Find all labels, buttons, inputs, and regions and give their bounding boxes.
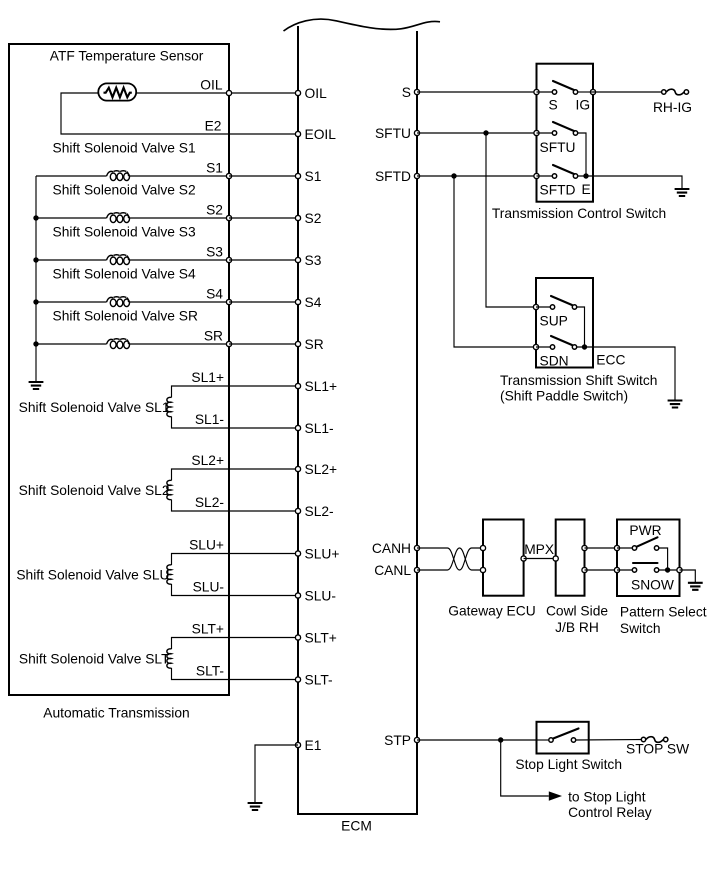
- wire SL1- to ECM: [172, 417, 299, 429]
- pin SR (ECM): [295, 341, 300, 346]
- wire PWR contact to common: [659, 548, 668, 570]
- svg-text:SR: SR: [204, 329, 223, 344]
- wire SUP row inside shift switch: [536, 306, 553, 308]
- svg-text:Shift Solenoid Valve SLU: Shift Solenoid Valve SLU: [16, 568, 169, 583]
- svg-text:S1: S1: [305, 169, 322, 184]
- svg-text:SL2-: SL2-: [305, 504, 334, 519]
- svg-text:CANL: CANL: [374, 563, 411, 578]
- switch contact right SDN: [572, 345, 576, 349]
- wire solenoid common ground bus: [35, 176, 37, 382]
- svg-text:Automatic Transmission: Automatic Transmission: [43, 706, 189, 721]
- wire E2 sensor loop: [61, 93, 298, 134]
- wire OIL box edge to ECM: [229, 92, 298, 94]
- svg-text:S2: S2: [305, 211, 322, 226]
- svg-text:SDN: SDN: [540, 353, 569, 368]
- wire SFTU ECM to control switch: [417, 132, 537, 134]
- wire SUP to SFTU junction: [486, 133, 536, 307]
- ground control switch E: [675, 189, 690, 196]
- arrow to stop light control relay: [549, 791, 562, 800]
- connector wave STOP SW: [646, 737, 663, 743]
- node PWR row at pattern switch: [614, 545, 619, 550]
- junction ECC common: [582, 344, 587, 349]
- svg-text:SL1-: SL1-: [195, 412, 224, 427]
- connector terminal STOP SW left: [641, 737, 645, 741]
- switch blade SUP: [551, 296, 572, 305]
- pin S3 (ECM): [295, 257, 300, 262]
- junction STP branch: [498, 737, 503, 742]
- node SFTU at control switch: [534, 130, 539, 135]
- wire SFTU row inside control switch: [537, 132, 555, 134]
- node CANH at gateway: [480, 545, 485, 550]
- switch blade stop light: [553, 729, 578, 739]
- junction pattern switch common: [665, 567, 670, 572]
- connector terminal STOP SW right: [664, 737, 668, 741]
- svg-text:Shift Solenoid Valve S3: Shift Solenoid Valve S3: [53, 225, 196, 240]
- node IG output at control switch: [590, 89, 595, 94]
- solenoid coil L-SL2: [167, 480, 172, 499]
- svg-text:SL1+: SL1+: [191, 370, 224, 385]
- wire SR left lead to common bus: [36, 343, 107, 345]
- svg-text:IG: IG: [576, 98, 591, 113]
- pin S2 (ECM): [295, 215, 300, 220]
- junction bus-S2: [33, 215, 38, 220]
- transmission shift switch box: [536, 278, 593, 368]
- node MPX at gateway: [521, 556, 526, 561]
- switch contact right S-IG: [573, 90, 577, 94]
- svg-text:E2: E2: [205, 119, 222, 134]
- solenoid coil L-SL1: [167, 397, 172, 416]
- svg-text:S2: S2: [206, 203, 223, 218]
- pin SL1- (ECM): [295, 425, 300, 430]
- wire S1 coil to box edge: [129, 175, 229, 177]
- svg-text:OIL: OIL: [200, 78, 223, 93]
- wire S4 coil to box edge: [129, 301, 229, 303]
- thermistor ATF temperature sensor body: [98, 83, 136, 100]
- wire SLT+ to ECM: [172, 638, 299, 650]
- node CANH-out at cowl J/B: [582, 545, 587, 550]
- wire S2 box edge to ECM: [229, 217, 298, 219]
- svg-text:SFTD: SFTD: [540, 183, 576, 198]
- pin S4 (ECM): [295, 299, 300, 304]
- wire S-IG row inside control switch: [537, 91, 555, 93]
- pin SLT- (ECM): [295, 677, 300, 682]
- svg-text:SLT-: SLT-: [196, 664, 224, 679]
- wire S1 left lead to common bus: [36, 175, 107, 177]
- node OIL at box edge: [226, 90, 231, 95]
- svg-text:S4: S4: [206, 287, 223, 302]
- wire S4 box edge to ECM: [229, 301, 298, 303]
- pin STP (ECM right): [414, 737, 419, 742]
- switch blade SNOW closed: [633, 562, 658, 564]
- switch contact right SUP: [572, 305, 576, 309]
- svg-text:SFTU: SFTU: [540, 140, 576, 155]
- svg-text:STOP SW: STOP SW: [626, 742, 689, 757]
- ground E1: [248, 803, 263, 810]
- svg-text:SL2+: SL2+: [305, 462, 338, 477]
- ECM top break wavy line: [284, 19, 441, 31]
- wire OIL sensor to box edge: [136, 92, 229, 94]
- junction bus-S3: [33, 257, 38, 262]
- svg-text:SLU-: SLU-: [305, 589, 336, 604]
- wire SL1+ to ECM: [172, 386, 299, 398]
- wire SLU+ to ECM: [172, 554, 299, 566]
- pin CANL (ECM right): [414, 567, 419, 572]
- wire S4 left lead to common bus: [36, 301, 107, 303]
- thermistor resistive element zigzag: [104, 88, 132, 98]
- node S1 at box edge: [226, 173, 231, 178]
- wire S3 box edge to ECM: [229, 259, 298, 261]
- svg-text:SNOW: SNOW: [631, 578, 674, 593]
- switch contact right SNOW: [654, 568, 658, 572]
- pattern select switch box: [617, 520, 680, 597]
- wire SDN row inside shift switch: [536, 346, 553, 348]
- node S at control switch: [534, 89, 539, 94]
- svg-text:Shift Solenoid Valve S1: Shift Solenoid Valve S1: [53, 141, 196, 156]
- pin SFTD (ECM right): [414, 173, 419, 178]
- switch blade SDN: [551, 336, 572, 345]
- svg-text:SLU-: SLU-: [193, 580, 224, 595]
- pin EOIL (ECM): [295, 131, 300, 136]
- node SDN at shift switch: [533, 344, 538, 349]
- node SNOW row at pattern switch: [614, 567, 619, 572]
- wire STP row inside stop light switch: [537, 739, 552, 741]
- wire SL2- to ECM: [172, 500, 299, 512]
- pin S1 (ECM): [295, 173, 300, 178]
- svg-text:(Shift Paddle Switch): (Shift Paddle Switch): [500, 389, 628, 404]
- node SFTD at control switch: [534, 173, 539, 178]
- svg-text:Cowl Side: Cowl Side: [546, 604, 608, 619]
- wire S3 left lead to common bus: [36, 259, 107, 261]
- connector terminal RH-IG left: [662, 90, 666, 94]
- solenoid coil L-S1: [110, 173, 116, 181]
- pin SLT+ (ECM): [295, 635, 300, 640]
- switch contact left stop light: [549, 738, 553, 742]
- twisted pair CANL strand: [448, 548, 484, 570]
- node S4 at box edge: [226, 299, 231, 304]
- connector terminal RH-IG right: [684, 90, 688, 94]
- svg-text:SL1-: SL1-: [305, 421, 334, 436]
- wire control switch to RH-IG: [593, 91, 664, 93]
- solenoid coil L-SLU: [167, 565, 172, 584]
- wire S3 coil to box edge: [129, 259, 229, 261]
- wire common to box edge: [659, 569, 680, 571]
- svg-text:SL1+: SL1+: [305, 379, 338, 394]
- wire stop light switch to STOP SW: [576, 739, 644, 742]
- solenoid coil L-S4: [110, 299, 116, 307]
- pin CANH (ECM right): [414, 545, 419, 550]
- wire S1 box edge to ECM: [229, 175, 298, 177]
- junction bus-SR: [33, 341, 38, 346]
- svg-text:Control Relay: Control Relay: [568, 805, 652, 820]
- wire S2 coil to box edge: [129, 217, 229, 219]
- pin SL1+ (ECM): [295, 383, 300, 388]
- svg-text:Shift Solenoid Valve SLT: Shift Solenoid Valve SLT: [19, 652, 170, 667]
- switch contact left SUP: [550, 305, 554, 309]
- switch contact right stop light: [571, 738, 575, 742]
- svg-text:Gateway ECU: Gateway ECU: [448, 604, 535, 619]
- svg-text:Shift Solenoid Valve S4: Shift Solenoid Valve S4: [53, 267, 196, 282]
- solenoid coil L-SLT: [167, 649, 172, 668]
- node MPX at cowl J/B: [553, 556, 558, 561]
- wire S2 left lead to common bus: [36, 217, 107, 219]
- wire CANL ECM to twist: [417, 569, 448, 571]
- svg-text:Shift Solenoid Valve SR: Shift Solenoid Valve SR: [53, 309, 198, 324]
- svg-text:RH-IG: RH-IG: [653, 100, 692, 115]
- ECM bottom boundary line: [297, 813, 418, 815]
- svg-text:S3: S3: [206, 245, 223, 260]
- svg-text:SL2-: SL2-: [195, 495, 224, 510]
- svg-text:E: E: [582, 182, 591, 197]
- svg-text:S1: S1: [206, 161, 223, 176]
- switch contact left SDN: [550, 345, 554, 349]
- wire STP ECM to stop light switch: [417, 739, 537, 741]
- svg-text:SUP: SUP: [540, 314, 568, 329]
- svg-text:S4: S4: [305, 295, 322, 310]
- svg-text:S: S: [402, 85, 411, 100]
- node S2 at box edge: [226, 215, 231, 220]
- wire SDN to SFTD junction: [454, 176, 536, 347]
- switch contact left S-IG: [552, 90, 556, 94]
- switch contact left SFTD: [552, 174, 556, 178]
- svg-text:MPX: MPX: [524, 542, 554, 557]
- switch contact right PWR: [654, 546, 658, 550]
- svg-text:E1: E1: [305, 738, 322, 753]
- solenoid coil L-S2: [110, 215, 116, 223]
- wire E to ground: [578, 176, 682, 189]
- svg-text:OIL: OIL: [305, 86, 328, 101]
- pin E1 (ECM): [295, 742, 300, 747]
- switch blade S-IG: [553, 81, 574, 90]
- svg-text:SLU+: SLU+: [305, 547, 340, 562]
- svg-text:ATF Temperature Sensor: ATF Temperature Sensor: [50, 49, 204, 64]
- wire SFTD ECM to control switch: [417, 175, 537, 177]
- wire S ECM to control switch: [417, 91, 537, 93]
- switch contact left SFTU: [552, 131, 556, 135]
- svg-text:ECC: ECC: [596, 353, 625, 368]
- svg-text:SLU+: SLU+: [189, 538, 224, 553]
- pin SLU- (ECM): [295, 593, 300, 598]
- svg-text:Switch: Switch: [620, 621, 661, 636]
- wire MPX gateway to cowl J/B: [524, 558, 556, 560]
- pin S (ECM right): [414, 89, 419, 94]
- pin SLU+ (ECM): [295, 551, 300, 556]
- solenoid coil L-SR: [110, 341, 116, 349]
- ground shift switch ECC: [668, 401, 683, 408]
- ground pattern select switch: [688, 583, 703, 590]
- svg-text:SLT+: SLT+: [192, 622, 224, 637]
- svg-text:Shift Solenoid Valve SL2: Shift Solenoid Valve SL2: [19, 483, 170, 498]
- svg-text:Transmission Shift Switch: Transmission Shift Switch: [500, 373, 657, 388]
- junction E common: [583, 173, 588, 178]
- wire ECC to ground: [577, 347, 675, 401]
- pin OIL (ECM): [295, 90, 300, 95]
- wire E1 to ground: [255, 745, 298, 803]
- switch contact right SFTD: [573, 174, 577, 178]
- svg-text:J/B RH: J/B RH: [555, 620, 599, 635]
- pin SL2- (ECM): [295, 508, 300, 513]
- svg-text:PWR: PWR: [629, 523, 661, 538]
- wire PWR row inside: [617, 547, 635, 549]
- ECM right boundary line: [416, 31, 418, 814]
- node CANL-out at cowl J/B: [582, 567, 587, 572]
- node SR at box edge: [226, 341, 231, 346]
- junction SFTD to shift-down paddle: [451, 173, 456, 178]
- wire S-IG contact to box edge: [578, 91, 593, 93]
- wire CANH ECM to twist: [417, 547, 448, 549]
- svg-text:STP: STP: [384, 733, 411, 748]
- wire SL2+ to ECM: [172, 469, 299, 481]
- stop light switch box: [537, 722, 589, 754]
- junction bus-S4: [33, 299, 38, 304]
- svg-text:ECM: ECM: [341, 819, 372, 834]
- svg-text:Pattern Select: Pattern Select: [620, 605, 707, 620]
- svg-text:Transmission Control Switch: Transmission Control Switch: [492, 206, 666, 221]
- transmission control switch box: [537, 64, 594, 202]
- wire SLT- to ECM: [172, 668, 299, 680]
- wire pattern switch to ground: [680, 570, 696, 583]
- connector wave RH-IG: [666, 89, 684, 95]
- automatic transmission enclosure box: [9, 44, 229, 695]
- svg-text:Stop Light Switch: Stop Light Switch: [515, 757, 622, 772]
- ground solenoid common: [29, 382, 44, 389]
- cowl side J/B RH box: [556, 520, 585, 596]
- pin SFTU (ECM right): [414, 130, 419, 135]
- switch contact right SFTU: [573, 131, 577, 135]
- node CANL at gateway: [480, 567, 485, 572]
- svg-text:SFTU: SFTU: [375, 126, 411, 141]
- wire STP branch to stop light control relay: [501, 740, 549, 796]
- switch blade SFTU: [553, 122, 574, 131]
- node common at pattern switch edge: [677, 567, 682, 572]
- wire cowl J/B to pattern switch SNOW: [585, 569, 618, 571]
- switch contact left PWR: [632, 546, 636, 550]
- svg-text:Shift Solenoid Valve SL1: Shift Solenoid Valve SL1: [19, 400, 170, 415]
- twisted pair CANH strand: [448, 548, 484, 570]
- wire SUP contact to ECC node: [577, 307, 585, 347]
- pin SL2+ (ECM): [295, 466, 300, 471]
- svg-text:S3: S3: [305, 253, 322, 268]
- ECM left boundary line: [297, 26, 299, 814]
- wire SNOW row inside: [617, 569, 635, 571]
- svg-text:EOIL: EOIL: [305, 127, 337, 142]
- solenoid coil L-S3: [110, 257, 116, 265]
- wire SLU- to ECM: [172, 584, 299, 596]
- node SUP at shift switch: [533, 304, 538, 309]
- wire cowl J/B to pattern switch PWR: [585, 547, 618, 549]
- svg-text:CANH: CANH: [372, 541, 411, 556]
- node S3 at box edge: [226, 257, 231, 262]
- switch blade PWR: [637, 537, 658, 546]
- svg-text:S: S: [549, 98, 558, 113]
- svg-text:SLT+: SLT+: [305, 631, 337, 646]
- wire SFTD row inside control switch: [537, 175, 555, 177]
- junction SFTU to shift-up paddle: [483, 130, 488, 135]
- wire SR coil to box edge: [129, 343, 229, 345]
- wire SR box edge to ECM: [229, 343, 298, 345]
- switch blade SFTD: [553, 165, 574, 174]
- svg-text:to Stop Light: to Stop Light: [568, 790, 646, 805]
- gateway ECU box: [483, 520, 524, 596]
- wire SFTU contact to E node: [578, 133, 586, 176]
- switch contact left SNOW: [632, 568, 636, 572]
- svg-text:Shift Solenoid Valve S2: Shift Solenoid Valve S2: [53, 183, 196, 198]
- svg-text:SFTD: SFTD: [375, 169, 411, 184]
- svg-text:SLT-: SLT-: [305, 673, 333, 688]
- svg-text:SL2+: SL2+: [191, 453, 224, 468]
- svg-text:SR: SR: [305, 337, 324, 352]
